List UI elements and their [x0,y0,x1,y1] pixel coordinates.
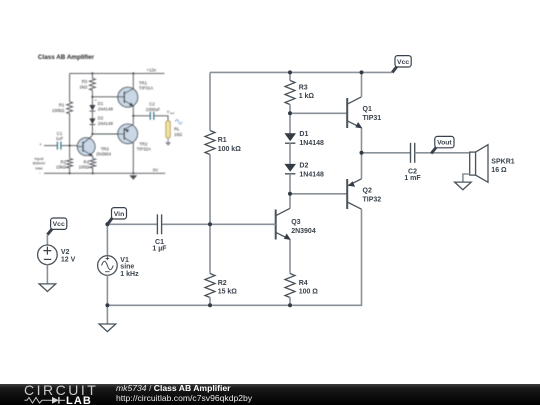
speaker SPKR1 16 ohm [470,145,515,183]
svg-text:TIP31A: TIP31A [139,86,153,91]
svg-text:Q3: Q3 [291,219,300,226]
svg-text:12 V: 12 V [61,257,76,264]
figure resistor R2 15k [56,146,73,174]
figure resistor R3 1k [79,73,95,96]
node: junction of Q1 collector on Vcc rail [360,70,364,74]
figure diode D2 [89,111,113,134]
resistor R1 [205,131,241,155]
wire: Vcc rail to R3 [289,72,291,80]
node: junction R4/bottom rail [288,303,292,307]
svg-text:16Ω: 16Ω [174,132,183,137]
ground (V2) [39,284,56,292]
figure wire to TR1 base [92,96,118,98]
svg-text:TIP31: TIP31 [363,115,382,122]
figure capacitor C2 1000uF [133,102,168,121]
svg-text:LAB: LAB [66,395,92,405]
svg-text:1uF: 1uF [56,136,64,141]
figure diode D1 [89,97,113,112]
resistor R3 [285,81,314,105]
svg-text:2N3904: 2N3904 [96,152,112,157]
node: junction D2/Q2-base/Q3-collector [288,192,292,196]
wire: R2 to bottom rail [209,298,211,306]
footer bar [0,382,540,405]
wire: left branch vertical (rail to R1) [209,72,211,130]
flag Vcc (top right) [392,56,411,73]
svg-text:1N4148: 1N4148 [98,106,114,111]
svg-text:-: - [39,170,41,175]
svg-text:Class AB Amplifier: Class AB Amplifier [38,54,95,61]
node: junction V1/bottom rail [105,303,109,307]
wire: V1 to bottom rail and ground stub [106,275,108,324]
transistor Q1 TIP31 [347,97,381,129]
node: junction Vin/V1/C1 [105,222,109,226]
svg-text:R2: R2 [218,280,227,287]
wire: Q1 collector to Vcc rail [361,72,363,96]
svg-text:15 kΩ: 15 kΩ [218,289,238,296]
figure sine squiggle [175,120,182,124]
wire: output node to C2 [362,152,411,154]
svg-text:TIP32: TIP32 [363,197,382,204]
node: junction R3/D1/Q1-base [288,111,292,115]
svg-text:Vcc: Vcc [53,221,65,228]
svg-text:1N4148: 1N4148 [299,140,324,147]
figure load resistor RL (yellow) [166,121,183,138]
svg-text:R3: R3 [299,85,308,92]
svg-text:1 kΩ: 1 kΩ [299,93,315,100]
svg-text:1N4148: 1N4148 [98,121,114,126]
ground (V1, bottom) [99,324,116,332]
wire: Q3 emitter to R4 [289,240,291,274]
flag Vin [107,208,126,225]
svg-text:100Ω: 100Ω [79,164,90,169]
figure input + terminal and C1 [39,131,77,150]
wire: C2 to speaker [415,152,470,154]
svg-text:R4: R4 [299,280,308,287]
figure resistor R4 100ohm [79,156,96,173]
CircuitLab logo text CIRCUIT [24,382,98,398]
resistor R2 [205,274,237,298]
svg-text:2N3904: 2N3904 [291,228,316,235]
figure node at TR2 base / TR3 collector [91,133,118,135]
svg-text:TIP32A: TIP32A [137,147,151,152]
CircuitLab logo text LAB [66,395,92,405]
voltage source V1 sine 1 kHz [98,256,139,278]
figure resistor R1 100k [52,73,73,145]
svg-text:16 Ω: 16 Ω [491,167,507,174]
wire: D1 cathode to D2 anode [289,143,291,164]
svg-text:1N4148: 1N4148 [299,172,324,179]
voltage source V2 12 V [38,245,76,265]
svg-text:mk5734 / Class AB Amplifier: mk5734 / Class AB Amplifier [116,383,231,393]
svg-text:http://circuitlab.com/c7sv96qk: http://circuitlab.com/c7sv96qkdp2by [116,393,253,403]
wire: speaker to ground [463,174,470,182]
figure 0V rail [44,168,165,175]
figure arrow below RL [165,138,171,146]
wire: junction to R2 [209,224,211,273]
node: junction R1/R2/C1/Q3-base [208,222,212,226]
CircuitLab logo symbol row: resistor zigzag [25,398,46,404]
capacitor C1 1 uF [152,214,167,252]
main schematic [38,56,515,332]
svg-text:Vout: Vout [437,140,452,147]
figure Vout label [167,109,175,115]
svg-text:out: out [170,111,174,115]
wire: Vin junction down to V1 [106,224,108,256]
wire: Vcc flag to V2 [46,235,48,246]
figure transistor TR2 TIP32A [118,116,151,174]
wire: C1/junction to Q3 base [162,223,276,225]
svg-text:R1: R1 [218,137,227,144]
capacitor C2 1 mF [404,143,421,182]
svg-text:1 µF: 1 µF [152,246,167,253]
svg-text:Vin: Vin [114,211,124,218]
svg-text:D1: D1 [299,131,308,138]
resistor R4 [285,274,318,298]
footer url line [116,393,253,403]
node: output junction Q1/Q2/C2 [360,151,364,155]
svg-text:100kΩ: 100kΩ [52,108,65,113]
wire: junction to C1 [107,223,157,225]
transistor Q2 TIP32 [347,179,381,209]
svg-text:100 kΩ: 100 kΩ [218,146,242,153]
diode D1 1N4148 [284,131,324,147]
transistor Q3 2N3904 [276,208,316,240]
figure transistor TR3 2N3904 [77,136,111,157]
node: junction of R3 branch on Vcc rail [288,70,292,74]
CircuitLab logo symbol row: diode [45,397,65,404]
figure node above D1 [91,96,97,103]
svg-text:1 kHz: 1 kHz [120,271,139,278]
svg-text:+12v: +12v [147,67,157,72]
wire: node down to Q3 collector [289,194,291,209]
diode D2 1N4148 [284,163,324,179]
footer title line [116,383,231,393]
svg-text:V2: V2 [61,249,70,256]
wire: D2 cathode to lower node [289,174,291,194]
wire: R1 to base-node junction [209,155,211,225]
svg-text:D2: D2 [299,163,308,170]
svg-text:+: + [39,142,42,147]
wire: node to D1 anode [289,113,291,133]
figure input labels [33,156,46,176]
wire: R4 to bottom rail [289,298,291,306]
figure +12V rail [70,67,165,74]
wire: Q1 emitter to output node to Q2 emitter [361,128,363,179]
embedded reference figure: Class AB Amplifier (raster-style inset) [33,54,183,180]
svg-text:Q2: Q2 [363,188,372,195]
svg-text:Q1: Q1 [363,106,372,113]
svg-text:1kΩ: 1kΩ [79,84,88,89]
wire: top Vcc rail [210,71,392,73]
wire: V2 to ground [46,264,48,284]
ground (speaker) [455,182,472,190]
wire: R3 to D1 node [289,105,291,114]
svg-text:Vcc: Vcc [397,59,409,66]
flag Vout [431,136,454,153]
svg-text:1000uF: 1000uF [146,107,161,112]
svg-text:15kΩ: 15kΩ [56,164,67,169]
figure title [38,54,95,61]
svg-text:0V: 0V [153,168,158,173]
svg-text:-: - [95,129,97,133]
node: junction R2/bottom rail [208,303,212,307]
svg-text:100 Ω: 100 Ω [299,289,319,296]
wire: node to Q2 base [290,193,347,195]
svg-text:SPKR1: SPKR1 [491,158,514,165]
wire: node to Q1 base [290,112,347,114]
svg-text:1 mF: 1 mF [404,175,421,182]
figure ground arrow [129,175,137,179]
svg-text:sine: sine [120,264,134,271]
flag Vcc (V2) [47,218,66,235]
figure output node [132,115,134,117]
figure transistor TR1 TIP31A [118,73,154,115]
wire: Q2 collector down to bottom rail [107,209,361,305]
